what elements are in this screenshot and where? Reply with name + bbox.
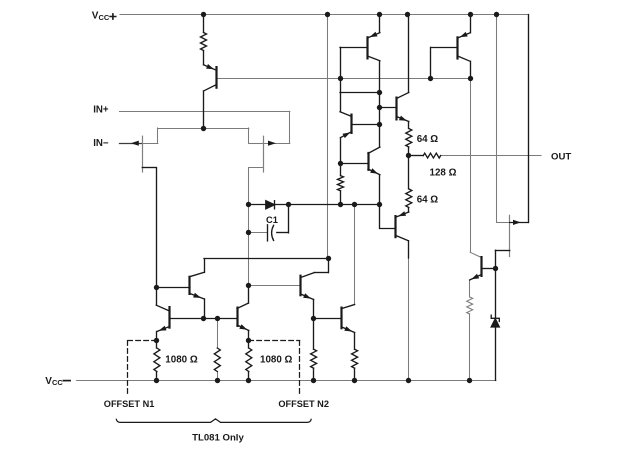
svg-text:64 Ω: 64 Ω: [417, 194, 439, 205]
svg-text:VCC: VCC: [92, 11, 110, 22]
svg-text:1080 Ω: 1080 Ω: [165, 355, 198, 366]
svg-text:64 Ω: 64 Ω: [417, 134, 439, 145]
svg-text:IN+: IN+: [93, 105, 109, 116]
svg-text:VCC: VCC: [45, 376, 63, 387]
svg-text:1080 Ω: 1080 Ω: [260, 355, 293, 366]
svg-text:OFFSET N2: OFFSET N2: [278, 399, 329, 409]
svg-text:OFFSET N1: OFFSET N1: [104, 399, 155, 409]
svg-text:OUT: OUT: [551, 152, 571, 163]
svg-text:128 Ω: 128 Ω: [430, 167, 457, 178]
svg-text:C1: C1: [266, 215, 278, 225]
svg-text:TL081 Only: TL081 Only: [192, 433, 244, 444]
svg-text:IN−: IN−: [93, 138, 109, 149]
